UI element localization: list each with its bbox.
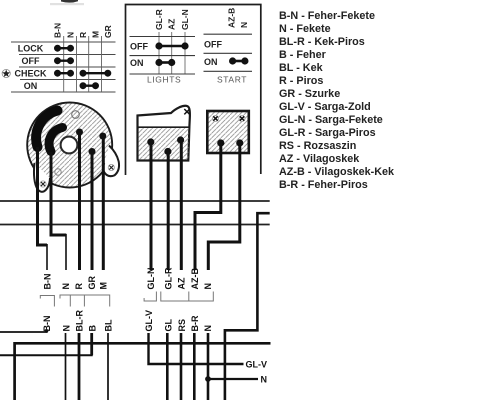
svg-text:R - Piros: R - Piros [279,75,323,87]
svg-text:BL-R: BL-R [75,310,85,332]
wire AZ-B [195,143,221,270]
ignition switch table grid [11,42,116,92]
connector bracket left quad [60,295,110,307]
svg-text:N: N [239,22,249,28]
wire M [102,137,105,271]
centre hole [61,137,78,154]
svg-text:N: N [65,32,75,38]
right mounting ear [103,146,119,177]
wire N tap to label [208,378,258,380]
svg-text:B: B [87,325,97,332]
svg-text:GL-R - Sarga-Piros: GL-R - Sarga-Piros [279,127,376,139]
wire B lower [0,333,92,355]
wire N lower [65,333,67,400]
svg-text:N: N [62,325,72,332]
svg-text:B-R: B-R [190,315,200,331]
connector bracket right quad [161,292,214,302]
wire BL-R lower [78,333,81,400]
svg-text:GR: GR [103,25,113,38]
svg-text:AZ-B: AZ-B [190,268,200,290]
svg-text:R: R [74,283,84,290]
svg-text:ON: ON [204,57,218,67]
svg-text:GL-V - Sarga-Zold: GL-V - Sarga-Zold [279,101,371,113]
svg-text:GL-N: GL-N [180,9,190,30]
lights switch body [138,106,190,161]
handlebar switch box [126,5,261,176]
svg-text:N: N [261,375,268,385]
svg-text:ON: ON [130,58,144,68]
svg-text:AZ: AZ [167,19,177,30]
key star icon [2,69,10,77]
svg-text:RS - Rozsaszin: RS - Rozsaszin [279,140,356,152]
wire N from start [208,143,240,270]
svg-text:B - Feher: B - Feher [279,49,327,61]
small hole top [72,111,80,119]
connector bracket left single [40,296,54,307]
illumination arc inner [49,128,62,152]
ignition table column dividers [64,36,102,92]
svg-text:AZ: AZ [177,277,187,289]
svg-text:OFF: OFF [130,41,148,51]
bus wire upper [0,200,270,202]
svg-text:GL-R: GL-R [163,267,173,289]
svg-text:M: M [99,282,109,290]
wire B-R lower [193,333,196,400]
svg-text:AZ-B - Vilagoskek-Kek: AZ-B - Vilagoskek-Kek [279,166,395,178]
svg-text:M: M [90,31,100,38]
arc fragment at top edge [61,0,78,3]
LIGHTS contact dots [156,43,188,66]
wire R [78,132,81,270]
wire right loop [225,213,270,400]
svg-text:CHECK: CHECK [14,68,47,78]
svg-text:N - Fekete: N - Fekete [279,23,331,35]
ignition table contact dots [55,45,111,88]
illumination arc outer [36,111,57,148]
svg-text:GL-V: GL-V [144,310,154,332]
wire GL lower [166,333,169,400]
svg-text:START: START [217,75,247,85]
svg-text:N: N [61,283,71,290]
svg-text:AZ - Vilagoskek: AZ - Vilagoskek [279,153,360,165]
wire N upper [51,152,66,235]
connector bracket right single [144,292,156,302]
wire GR [91,150,94,270]
bus wire lower [0,224,270,226]
svg-text:BL: BL [104,319,114,331]
svg-text:GR - Szurke: GR - Szurke [279,88,340,100]
ground bus thick [15,343,271,400]
wire AZ [180,140,183,270]
wire RS lower [180,333,183,400]
svg-text:LOCK: LOCK [18,43,44,53]
svg-text:OFF: OFF [22,56,40,66]
wire GL-V lower [149,333,244,364]
junction N [205,376,211,382]
left mounting ear [34,163,50,192]
LIGHTS table column dividers [159,32,185,75]
svg-text:B-N: B-N [43,274,53,290]
svg-text:R: R [78,32,88,38]
svg-text:B-N - Feher-Fekete: B-N - Feher-Fekete [279,10,375,22]
svg-text:ON: ON [24,81,38,91]
svg-text:B-R - Feher-Piros: B-R - Feher-Piros [279,179,368,191]
svg-text:LIGHTS: LIGHTS [147,75,181,85]
svg-text:N: N [203,283,213,290]
svg-text:GL-V: GL-V [246,360,268,370]
colour legend [279,10,395,191]
start switch body [207,111,249,153]
svg-text:GL-R: GL-R [154,9,164,30]
small hole bottom [55,169,61,175]
ignition switch body (round) [27,103,119,192]
svg-text:BL-R - Kek-Piros: BL-R - Kek-Piros [279,36,365,48]
svg-text:OFF: OFF [204,40,222,50]
terminal dots [76,129,83,136]
wire B-N upper [38,147,48,245]
svg-text:GR: GR [87,275,97,289]
svg-text:GL-N - Sarga-Fekete: GL-N - Sarga-Fekete [279,114,383,126]
LIGHTS table rows [130,37,196,75]
wire BL lower [107,333,109,400]
svg-text:GL-N: GL-N [146,268,156,290]
wire GL-N [150,142,153,270]
START table rows [204,34,253,71]
wire N lower right [207,333,210,400]
svg-text:B-N: B-N [52,23,62,38]
wire B-N lower to left [0,329,47,332]
START contact dots [230,58,248,64]
svg-text:BL - Kek: BL - Kek [279,62,324,74]
svg-text:RS: RS [177,319,187,332]
svg-text:N: N [203,325,213,332]
svg-text:GL: GL [164,318,174,331]
wire GL-R [167,152,170,271]
svg-text:AZ-B: AZ-B [227,8,237,28]
